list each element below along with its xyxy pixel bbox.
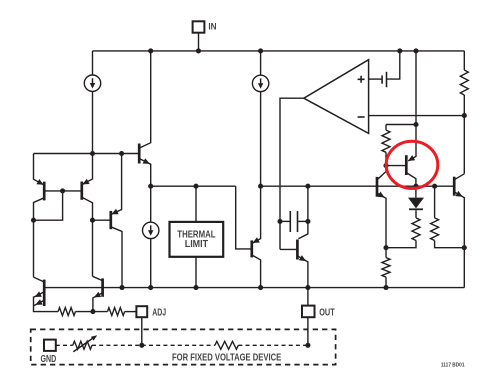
svg-text:OUT: OUT bbox=[319, 308, 335, 319]
svg-text:LIMIT: LIMIT bbox=[185, 239, 208, 250]
svg-text:ADJ: ADJ bbox=[152, 307, 166, 318]
svg-text:1117 BD01: 1117 BD01 bbox=[441, 362, 465, 368]
svg-text:IN: IN bbox=[208, 21, 216, 32]
svg-text:FOR FIXED VOLTAGE DEVICE: FOR FIXED VOLTAGE DEVICE bbox=[172, 353, 282, 364]
svg-text:GND: GND bbox=[41, 354, 57, 365]
